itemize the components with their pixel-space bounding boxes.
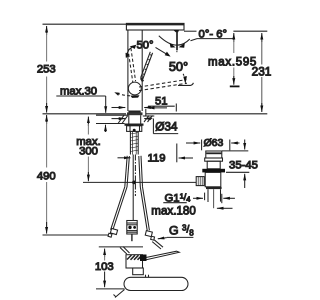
rod below knob [131, 234, 133, 241]
dim 103 top arrow [104, 249, 106, 257]
side view lever [141, 251, 180, 260]
valve tailpipe [207, 189, 209, 202]
tilted lever end arrowhead [183, 76, 187, 84]
max.595 bottom tick [230, 85, 240, 87]
dim 119 ext line [176, 144, 178, 163]
column bottom dark band [128, 111, 140, 113]
dim 119 right arrow [179, 157, 193, 159]
svg-text:119: 119 [147, 153, 165, 165]
lever dashed upright position [128, 49, 133, 83]
svg-text:0°- 6°: 0°- 6° [199, 29, 228, 41]
valve centerline [213, 189, 215, 208]
dim 253 vertical line [46, 33, 48, 62]
rod knob [127, 221, 137, 235]
svg-text:300: 300 [79, 146, 98, 158]
dim 231 bottom arrow [261, 103, 263, 112]
svg-text:Ø34: Ø34 [155, 120, 178, 134]
deck reference line right [146, 113, 267, 115]
dim 103 bottom arrow [104, 272, 106, 288]
dim max.300 upper arrow [87, 117, 89, 126]
body width arrows lower [112, 118, 126, 120]
dim 51 underline [148, 105, 175, 107]
pivot base shade [131, 95, 140, 98]
svg-text:253: 253 [37, 64, 56, 76]
dim 490 vertical line [46, 122, 48, 168]
rod hatch [150, 54, 152, 57]
dim O63 right arrow [231, 142, 239, 144]
left hose [127, 156, 129, 187]
stadium top tab [145, 275, 147, 278]
dim G1 1/4 arrow left [193, 197, 203, 199]
dim max.30 upper arrow [105, 96, 107, 113]
svg-text:max.180: max.180 [151, 205, 195, 218]
dim 253 vertical line upper arrow [46, 26, 48, 35]
hose-end reference line [43, 234, 111, 236]
hook below [114, 290, 125, 298]
side view stadium body [124, 277, 188, 290]
valve body [205, 172, 221, 186]
svg-text:50°: 50° [169, 59, 188, 74]
dim 490 lower arrow [46, 222, 48, 234]
pull rod [132, 155, 134, 221]
text O34 callout [152, 119, 154, 134]
pivot ball [128, 82, 141, 95]
50deg leader 2 [156, 47, 167, 54]
dim 490 upper arrow [46, 115, 48, 124]
dim max.595 top arrow [233, 33, 235, 42]
50deg arc left [126, 47, 132, 56]
lever tilted dashed position [139, 80, 187, 87]
lever end bottom line [178, 83, 193, 86]
right hose G3/8 tail [151, 236, 155, 240]
35-45 ext line top [222, 150, 248, 152]
locknut body [127, 126, 142, 132]
dim max.30 lower arrow [105, 125, 107, 132]
side view neck [133, 268, 144, 275]
valve top cap [206, 151, 222, 158]
supply reference line [83, 181, 197, 183]
G3/8 leader arrow [158, 238, 167, 239]
dim 231 top arrow [261, 33, 263, 42]
side view inlet stub [120, 248, 127, 255]
svg-text:35-45: 35-45 [229, 160, 258, 172]
lever solid 50deg rod [141, 52, 151, 78]
dim 231 line [261, 40, 263, 65]
svg-text:490: 490 [37, 171, 56, 183]
side view cartridge body [126, 255, 143, 268]
deck slab near faucet [96, 114, 127, 116]
svg-text:50°: 50° [136, 40, 153, 52]
faucet top plate [126, 23, 184, 30]
dim max.30 underline [56, 95, 105, 97]
O63 ext lines [201, 140, 203, 151]
left hose nut [110, 228, 117, 234]
dim 51 arrow left [148, 107, 167, 109]
svg-text:51: 51 [155, 96, 168, 108]
swing dashed arc under ball [117, 93, 136, 96]
deck reference line left [43, 113, 127, 115]
escutcheon [127, 112, 143, 115]
35-45 ext line bottom [226, 171, 249, 173]
svg-text:max.30: max.30 [60, 85, 97, 97]
shank through deck [128, 115, 130, 123]
dim 103 bottom line [96, 288, 125, 290]
dim 51 ext line left [145, 109, 147, 116]
dim 253 lower arrow [46, 103, 48, 113]
valve bottom edge [206, 187, 222, 189]
lever top reference line [184, 30, 197, 32]
svg-text:103: 103 [95, 261, 114, 273]
faucet body right edge [141, 30, 143, 111]
max.180 leader arrow [217, 207, 233, 209]
right hose nut [145, 231, 152, 237]
svg-text:max.595: max.595 [208, 56, 257, 68]
valve neck [207, 161, 220, 169]
shank thread hatch [130, 133, 138, 134]
valve left outlet [196, 177, 204, 186]
dim G1 1/4 arrow right [223, 197, 235, 199]
valve upper ring [205, 158, 223, 161]
dim 35-45 bottom arrow [244, 174, 246, 188]
dim max.595 line [233, 40, 235, 53]
hanging lever piece [174, 30, 180, 32]
svg-text:Ø63: Ø63 [204, 138, 224, 149]
G1 1/4 ext lines [204, 193, 206, 201]
body width arrows upper [112, 107, 126, 109]
threaded shank [129, 131, 131, 154]
dim 35-45 top arrow [244, 140, 246, 150]
dim O63 left arrow [186, 142, 200, 144]
locknut flange [125, 123, 144, 125]
G1 1/4 underline [163, 202, 186, 204]
deck hatch [118, 115, 124, 123]
dim 51 ext line right [175, 104, 177, 112]
dim 253 top extension line [43, 23, 127, 25]
dim max.300 vertical line [87, 124, 89, 135]
faucet body left edge [127, 30, 129, 111]
valve lower ring [202, 169, 225, 173]
right hose [139, 156, 141, 187]
dim 103 top line [99, 246, 143, 248]
dim max.300 lower arrow [87, 172, 89, 181]
0-6 underline and hook [197, 38, 233, 40]
dim 119 left arrow [118, 157, 131, 159]
dim max.595 bottom arrow [233, 76, 235, 85]
0-6 arc [159, 36, 190, 45]
svg-text:231: 231 [252, 64, 272, 78]
G3/8 underline [167, 236, 194, 238]
junction dot [132, 181, 136, 185]
